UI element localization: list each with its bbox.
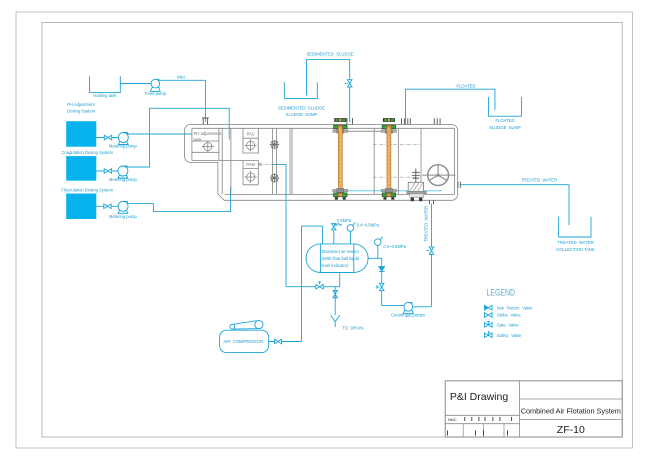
partition pair <box>290 128 292 194</box>
sediment riser nozzle flange <box>347 118 353 125</box>
wire dissolved air water return into tank <box>272 164 286 286</box>
svg-text:PAM: PAM <box>246 162 255 167</box>
svg-text:SEDIMENTED SLUDGE: SEDIMENTED SLUDGE <box>278 106 325 111</box>
scraper unit 2 <box>381 118 396 199</box>
gate valve on treated recycle riser <box>426 247 433 254</box>
wire treated water recycle down to centrifugal pump <box>413 204 432 307</box>
PAC dosing box <box>243 128 258 153</box>
coagulation dosing tank <box>66 156 96 181</box>
svg-text:PAC: PAC <box>246 131 254 136</box>
svg-text:Metering pump: Metering pump <box>109 214 138 219</box>
svg-text:PH adjustment: PH adjustment <box>194 131 222 136</box>
pressure gauge PG2 <box>375 237 383 246</box>
svg-text:SLUDGE SUMP: SLUDGE SUMP <box>286 112 318 117</box>
scraper1 top green pad <box>334 125 348 129</box>
wire dosing tank2 to valve V2 <box>96 170 118 172</box>
regulator hand wheel <box>422 165 456 186</box>
agitator gear upper <box>270 140 279 149</box>
release unit base <box>407 191 427 193</box>
wire treated water run to collection tank <box>461 185 570 226</box>
inlet nozzle flange <box>202 118 209 125</box>
flotation tank outer shell <box>185 125 458 201</box>
valve V2 <box>104 169 111 174</box>
wire air compressor to vessel top <box>269 226 323 341</box>
dispersion arrow dashdot <box>259 163 274 165</box>
svg-text:NNC: NNC <box>448 417 457 422</box>
wire metering pump1 discharge to PH tank <box>127 133 192 135</box>
svg-text:Globe Valve: Globe Valve <box>497 313 522 318</box>
svg-text:Non Return Valve: Non Return Valve <box>497 305 533 310</box>
svg-text:TREATED WATER: TREATED WATER <box>521 177 557 182</box>
check valve non-return <box>379 267 385 272</box>
tank inner wall lines <box>192 128 455 194</box>
scraper unit 1 <box>333 118 348 199</box>
recycle bottom nozzle <box>430 200 434 204</box>
scraper2 bottom green pad <box>382 193 396 197</box>
wire centrifugal pump suction riser to vessel <box>368 258 404 305</box>
flocculation dosing tank <box>66 194 96 220</box>
wire drain drop leg <box>334 287 336 315</box>
wire pressure gauge PG2 stem <box>377 245 379 258</box>
svg-text:Feed pump: Feed pump <box>145 91 167 96</box>
scraper2 upper bolt bar <box>381 130 396 133</box>
scraper2 shaft <box>387 127 391 190</box>
level dashdot line upper <box>373 143 421 145</box>
svg-text:AIR COMPRESSOR: AIR COMPRESSOR <box>223 339 263 344</box>
title block right rows <box>520 399 623 420</box>
scraper2 lower bolt bar <box>381 189 396 192</box>
svg-text:FLOATED: FLOATED <box>495 118 514 123</box>
svg-text:COLLECTION TANK: COLLECTION TANK <box>556 247 595 252</box>
scraper1 upper bolt bar <box>333 130 348 133</box>
svg-text:TO DRAIN: TO DRAIN <box>342 325 363 330</box>
mini table dividers <box>463 424 504 437</box>
globe valve on pump riser <box>377 283 384 290</box>
wire floated sludge run to sump <box>406 89 495 125</box>
legend globe valve symbol <box>485 313 493 318</box>
svg-text:Dissolved air vessel: Dissolved air vessel <box>322 249 359 254</box>
wheel support flanges <box>434 118 440 124</box>
valve V3 <box>104 204 111 209</box>
svg-text:tank: tank <box>194 137 203 142</box>
PH adjustment dosing tank <box>66 121 96 147</box>
gate valve on drain <box>333 290 338 297</box>
scraper1 lower bolt bar <box>333 189 348 192</box>
svg-text:TREATED WATER: TREATED WATER <box>424 206 429 242</box>
wire vessel bottom outlet to tee <box>286 272 340 286</box>
legend non return valve symbol <box>485 305 493 310</box>
svg-text:Gate Valve: Gate Valve <box>497 323 520 328</box>
svg-text:Centrifugal pumps: Centrifugal pumps <box>391 312 425 317</box>
svg-text:Coagulation Dosing System: Coagulation Dosing System <box>61 150 113 155</box>
wire safety valve stem <box>333 230 335 244</box>
in-tank flush line <box>341 190 442 192</box>
mixer symbol PH tank <box>202 141 214 153</box>
legend gate valve symbol <box>485 322 493 328</box>
release unit feet <box>411 198 414 202</box>
valve V1 <box>104 135 111 140</box>
svg-text:0.5MPa: 0.5MPa <box>337 218 352 223</box>
scraper1 top gearbox <box>334 118 346 122</box>
PH adjustment cell dividers <box>192 128 219 160</box>
gate valve on sediment riser <box>345 80 352 87</box>
safety valve <box>332 223 342 229</box>
svg-text:LEGEND: LEGEND <box>487 288 516 299</box>
treated outlet nozzle <box>458 182 460 188</box>
agitator column <box>273 128 277 194</box>
mini table ticks <box>465 417 512 421</box>
svg-text:TREATED WATER: TREATED WATER <box>557 240 593 245</box>
svg-text:Metering pump: Metering pump <box>109 177 138 182</box>
svg-text:0.4~0.5MPa: 0.4~0.5MPa <box>383 244 406 249</box>
title block divider vertical <box>519 381 521 437</box>
agitator gear lower <box>270 173 279 182</box>
svg-text:0.4~0.5MPa: 0.4~0.5MPa <box>357 222 380 227</box>
wire dosing tank1 to valve V1 <box>96 137 118 139</box>
globe valve on return line <box>316 282 323 289</box>
sedimented sludge sump <box>284 82 317 98</box>
svg-text:PH Adjustment: PH Adjustment <box>67 102 96 107</box>
floated nozzle flanges <box>402 118 411 124</box>
svg-text:Metering pump: Metering pump <box>109 144 138 149</box>
title block left rows <box>445 415 519 423</box>
wire feed pump discharge (inlet) <box>159 80 206 122</box>
scraper2 top green pad <box>382 125 396 129</box>
svg-text:P&I Drawing: P&I Drawing <box>450 391 509 403</box>
air compressor cylinder <box>230 321 263 330</box>
svg-text:level indicator): level indicator) <box>322 263 350 268</box>
treated water collection tank <box>559 217 591 237</box>
wire sedimented sludge riser and run to sump <box>307 60 350 122</box>
metering pump 3 <box>118 201 128 213</box>
scraper2 feet <box>384 197 387 199</box>
svg-text:ZF-10: ZF-10 <box>557 424 585 436</box>
mixer symbol PAM <box>245 171 257 183</box>
dissolved air vessel <box>306 244 368 273</box>
release unit stem <box>412 169 420 183</box>
level dashdot line lower <box>373 176 421 178</box>
metering pump 2 <box>118 166 128 178</box>
holding tank <box>90 76 121 93</box>
metering pump 1 <box>118 133 128 145</box>
air compressor tank <box>220 330 269 352</box>
svg-text:inlet: inlet <box>177 75 186 80</box>
svg-text:(With float ball liquid: (With float ball liquid <box>322 256 360 261</box>
feed pump <box>150 79 160 91</box>
svg-text:Flocculation Dosing System: Flocculation Dosing System <box>61 188 113 193</box>
svg-text:Holding tank: Holding tank <box>93 93 117 98</box>
drain arrow <box>331 315 340 327</box>
wire metering pump2 discharge over into tank channel <box>127 108 230 167</box>
scraper1 bottom green pad <box>334 193 348 197</box>
globe valve at air compressor <box>275 339 282 344</box>
scraper2 top gearbox <box>383 118 395 122</box>
scraper1 feet <box>335 197 338 199</box>
mixer symbol PAC <box>245 139 257 151</box>
svg-text:Combined Air Flotation System: Combined Air Flotation System <box>521 406 621 415</box>
release unit body <box>408 182 423 191</box>
legend safety valve symbol <box>485 331 493 337</box>
svg-text:SLUDGE SUMP: SLUDGE SUMP <box>489 125 521 130</box>
partition walls right section <box>374 128 421 194</box>
centrifugal pump <box>403 302 413 313</box>
svg-text:Dosing System: Dosing System <box>67 108 96 113</box>
PAM dosing box <box>243 160 258 184</box>
svg-text:Safety Valve: Safety Valve <box>497 333 522 338</box>
svg-text:SEDIMENTED SLUDGE: SEDIMENTED SLUDGE <box>306 51 353 56</box>
wire pressure gauge PG1 stem <box>349 231 351 244</box>
wire dosing tank3 to valve V3 <box>96 205 118 207</box>
channel partition walls <box>222 128 231 194</box>
scraper drive shaft line <box>347 130 384 132</box>
wire metering pump3 discharge under into tank channel <box>127 187 231 212</box>
floated sludge sump <box>489 97 522 116</box>
title block frame <box>445 381 622 437</box>
scraper1 shaft <box>338 127 342 190</box>
wire holding tank to feed pump <box>120 83 151 85</box>
pressure gauge PG1 <box>347 223 355 232</box>
svg-text:FLOATED: FLOATED <box>456 84 475 89</box>
